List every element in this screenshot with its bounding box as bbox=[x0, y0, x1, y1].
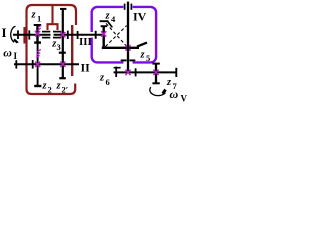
inner bearing hanger bracket (maroon) bbox=[48, 5, 58, 30]
z3 z2' mesh cap bbox=[59, 52, 66, 54]
pitch cone dashed line B bbox=[105, 26, 126, 47]
mesh marks z1-z2 (magenta hatches) bbox=[36, 25, 41, 57]
svg-text:1: 1 bbox=[37, 14, 41, 24]
svg-text:5: 5 bbox=[146, 53, 150, 63]
hub cross at shaft IV / V junction bbox=[125, 70, 130, 75]
input rotation arrow bbox=[11, 26, 16, 42]
svg-text:2′: 2′ bbox=[62, 85, 69, 95]
z4 rim cap bbox=[100, 20, 109, 22]
shaft II bbox=[14, 63, 79, 65]
shaft V right bearing tick bbox=[175, 68, 177, 77]
bevel gear z4 bar bbox=[102, 26, 104, 49]
svg-text:2: 2 bbox=[48, 85, 52, 95]
hub cross z7 on shaft V bbox=[153, 70, 158, 75]
gear z2' bottom cap bbox=[59, 77, 66, 79]
shaft I bearing tick inner bbox=[28, 30, 30, 39]
hub cross z4 on shaft III bbox=[101, 31, 106, 36]
hub cross z5 on shaft IV bbox=[125, 45, 130, 50]
gear z1 bar bbox=[36, 25, 38, 43]
z7 top cap bbox=[152, 63, 159, 65]
gearbox housing (maroon box) bbox=[27, 5, 77, 94]
shaft I bbox=[13, 34, 51, 36]
gear z2 bar bbox=[37, 43, 39, 86]
shaft V left bearing tick bbox=[115, 67, 117, 77]
svg-text:3: 3 bbox=[57, 42, 61, 52]
bevel box housing (purple box) bbox=[92, 7, 156, 63]
svg-text:I: I bbox=[14, 51, 18, 61]
shaft III bearing tick in bevel box bbox=[95, 31, 97, 39]
gap in purple left edge for shaft III bbox=[90, 32, 94, 38]
shaft I bearing tick outer bbox=[17, 30, 19, 39]
shaft III bearing tick at housing bbox=[67, 31, 69, 39]
shaft IV (vertical) bbox=[127, 2, 129, 73]
gear z2 bottom cap bbox=[34, 85, 41, 87]
svg-text:III: III bbox=[79, 36, 92, 48]
plain bearing of shaft I in hanger bbox=[42, 32, 50, 38]
bearing pad left wall shaft I bbox=[23, 27, 26, 44]
shaft II bearing tick outer bbox=[15, 60, 17, 68]
z4 rim slant bbox=[108, 22, 113, 28]
output rotation arrow omega V bbox=[150, 87, 166, 95]
housing right wall jog bbox=[71, 25, 73, 76]
gear z1 top cap bbox=[34, 24, 42, 26]
gap in purple top edge for shaft IV bbox=[123, 5, 132, 8]
gear z1 bottom cap bbox=[34, 41, 41, 43]
hub cross z1 on shaft I bbox=[35, 31, 40, 36]
gear z3 / z2' combined bar bbox=[62, 9, 64, 78]
svg-text:I: I bbox=[2, 25, 7, 40]
bevel gear z5 bar bbox=[102, 47, 139, 49]
shaft V bearing tick mid bbox=[135, 68, 137, 76]
gear z3 top cap bbox=[60, 8, 66, 10]
hub cross z3 on shaft III bbox=[60, 32, 65, 37]
shaft II bearing tick inner bbox=[32, 60, 34, 69]
shaft III bearing tick outside housing bbox=[77, 31, 79, 39]
hub cross z2 on shaft II bbox=[35, 62, 40, 67]
pitch cone dashed line A bbox=[106, 23, 127, 46]
z4 top cap bbox=[101, 25, 108, 27]
svg-text:II: II bbox=[81, 61, 91, 75]
svg-text:ω: ω bbox=[170, 87, 179, 101]
svg-text:ω: ω bbox=[3, 46, 12, 60]
shaft IV top bearing ticks bbox=[124, 4, 126, 10]
hub cross z2' on shaft II bbox=[60, 62, 65, 67]
plain bearing of shaft III in hanger bbox=[53, 32, 61, 38]
svg-text:V: V bbox=[181, 94, 188, 104]
gear z7 bar bbox=[155, 63, 157, 83]
shaft III bbox=[54, 34, 104, 36]
z7 bottom cap bbox=[152, 82, 159, 84]
z5 rim slant bbox=[137, 43, 147, 47]
shaft V bbox=[114, 71, 177, 73]
gear z6 bar on shaft IV bbox=[121, 59, 127, 61]
svg-text:IV: IV bbox=[133, 10, 147, 24]
gap in purple bottom edge for shaft IV bbox=[123, 61, 132, 64]
shaft V left bearing cap bbox=[114, 67, 121, 69]
svg-text:6: 6 bbox=[106, 77, 110, 87]
